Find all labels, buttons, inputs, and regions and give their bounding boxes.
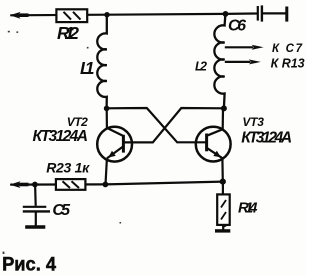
svg-text:R12: R12 bbox=[57, 23, 79, 43]
svg-text:VT3: VT3 bbox=[242, 115, 264, 129]
svg-text:КТ3124А: КТ3124А bbox=[241, 129, 292, 146]
svg-text:L1: L1 bbox=[80, 58, 95, 78]
svg-text:С5: С5 bbox=[52, 202, 71, 219]
svg-text:R23 1к: R23 1к bbox=[46, 160, 90, 176]
svg-text:R14: R14 bbox=[238, 199, 258, 216]
svg-text:С6: С6 bbox=[228, 18, 246, 35]
svg-text:К С7: К С7 bbox=[272, 43, 303, 55]
svg-text:К R13: К R13 bbox=[271, 56, 305, 70]
svg-text:VT2: VT2 bbox=[67, 115, 88, 129]
svg-text:L2: L2 bbox=[195, 59, 207, 73]
svg-text:КТ3124А: КТ3124А bbox=[33, 128, 89, 145]
svg-text:Рис. 4: Рис. 4 bbox=[2, 255, 56, 276]
